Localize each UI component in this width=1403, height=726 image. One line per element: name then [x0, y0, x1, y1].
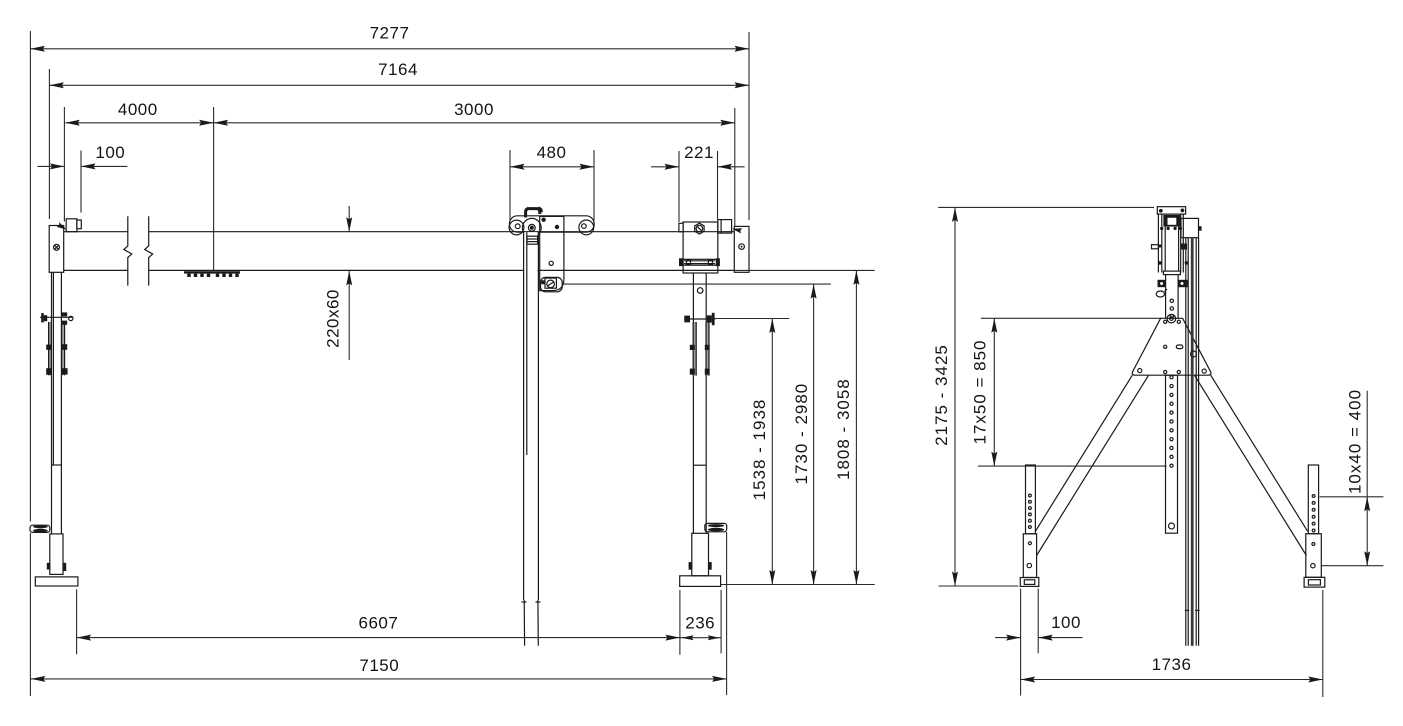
svg-text:480: 480 [537, 143, 567, 162]
dim 221 ext lines [678, 151, 680, 222]
right column bracket [683, 222, 718, 273]
right foot plate [680, 576, 721, 587]
left ext-line end arrow [57, 222, 67, 229]
dim 6607 ext lines [76, 589, 78, 654]
right column clamp [693, 322, 696, 376]
svg-text:1730 - 2980: 1730 - 2980 [792, 383, 811, 485]
dim 7164 [49, 84, 749, 86]
left end plate [49, 226, 64, 273]
left post upper [1026, 465, 1036, 534]
trolley right roller [579, 220, 594, 235]
svg-text:4000: 4000 [118, 100, 158, 119]
beam bottom edge [64, 269, 128, 271]
crank hook [1156, 291, 1164, 297]
svg-text:1736: 1736 [1152, 655, 1192, 674]
winch drum flanges [1158, 280, 1166, 287]
right bracket hex bolt [695, 223, 704, 234]
svg-text:10x40 = 400: 10x40 = 400 [1346, 389, 1365, 494]
rail [1185, 238, 1187, 646]
dim 236 [680, 637, 721, 639]
svg-text:3000: 3000 [454, 100, 494, 119]
dim 1538-1938 ext line [713, 318, 789, 320]
dim 17x50 ext lines [981, 317, 1162, 319]
left foot block [1020, 578, 1039, 587]
left post lower [1023, 534, 1036, 578]
dim 2175-3425 ext lines [938, 206, 1154, 208]
winch pulley block [1163, 215, 1180, 227]
svg-text:7150: 7150 [359, 656, 399, 675]
winch top plate [1157, 207, 1185, 214]
dim 10x40 [1366, 391, 1368, 566]
trolley top plate [509, 216, 594, 232]
dim 6607 [77, 637, 680, 639]
dim 100 right ext lines [1020, 589, 1022, 696]
dim 10x40 ext lines [1320, 496, 1384, 498]
dim 480 ext lines [509, 150, 511, 221]
dim 3000 ext line [734, 108, 736, 226]
winch inner tube [1164, 227, 1166, 272]
left stop tab [66, 219, 77, 232]
right bracket clamp bar [682, 259, 718, 265]
winch side bolts [1158, 261, 1162, 265]
right column tube [692, 273, 694, 533]
dim 17x50 [993, 318, 995, 466]
trolley pulley [522, 218, 541, 237]
dim 1538-1938 [771, 319, 773, 585]
dim 2175-3425 [954, 207, 956, 586]
winch bolt row [1160, 227, 1163, 230]
svg-text:17x50 = 850: 17x50 = 850 [970, 339, 989, 444]
dim 220x60 [348, 206, 350, 232]
left crank knob [30, 525, 50, 532]
left foot plate [35, 577, 78, 586]
svg-text:221: 221 [684, 143, 714, 162]
rack under beam [184, 271, 240, 273]
dim 480 [510, 166, 594, 168]
dim 1730-2980 [813, 284, 815, 584]
left leg [1035, 375, 1132, 531]
right foot block [1304, 577, 1325, 587]
dim 1730-2980 ext line [562, 283, 831, 285]
dim 1736 ext line [1322, 590, 1324, 697]
dim 100 right [995, 637, 1021, 639]
beam right end cap [734, 226, 749, 272]
left column clamp [49, 322, 52, 375]
trolley left roller [509, 220, 524, 235]
svg-text:2175 - 3425: 2175 - 3425 [932, 344, 951, 446]
right leg [1211, 375, 1308, 531]
mast holed bar [1166, 375, 1178, 533]
winch frame sides [1157, 214, 1159, 272]
dim 4000 [65, 122, 213, 124]
svg-text:220x60: 220x60 [324, 289, 343, 348]
svg-text:7277: 7277 [370, 24, 410, 43]
dim 7164 ext line [48, 69, 50, 219]
right crank knob [705, 523, 727, 531]
dim 221 [651, 166, 679, 168]
lifting eye [1167, 314, 1176, 323]
dim 7150 [31, 678, 727, 680]
trolley handle [526, 209, 540, 218]
triangle bold hole over rail [1191, 351, 1197, 357]
mast lower tube [1165, 275, 1167, 319]
dim 100 left [38, 165, 65, 167]
dim 3000 [214, 122, 735, 124]
triangle holes [1164, 320, 1167, 323]
dim 7150 ext line [726, 532, 728, 695]
trolley bolts [541, 218, 545, 222]
svg-text:1808 - 3058: 1808 - 3058 [834, 378, 853, 480]
dim 100 left ext line [80, 151, 82, 213]
right post upper [1308, 465, 1318, 534]
trolley mast [524, 232, 537, 600]
ground reference line [721, 584, 875, 586]
rail joint marks [1185, 609, 1189, 611]
right ext-line end arrow [732, 228, 742, 233]
right outer tube [692, 533, 709, 576]
trolley arm [540, 216, 564, 290]
beam top edge [64, 231, 128, 233]
svg-text:6607: 6607 [358, 614, 398, 633]
triangle gusset plate [1132, 318, 1211, 375]
rail bracket box [1181, 218, 1199, 237]
right post lower [1306, 534, 1322, 578]
left outer tube [50, 534, 63, 575]
svg-text:236: 236 [685, 614, 715, 633]
dim 7277 [30, 48, 749, 50]
svg-text:7164: 7164 [378, 60, 418, 79]
dim 1808-3058 [855, 270, 857, 584]
dim 1736 [1021, 679, 1323, 681]
beam break marks [124, 216, 132, 285]
dim 1808-3058 ext line [734, 269, 875, 271]
svg-text:100: 100 [95, 143, 125, 162]
left column tube [51, 273, 53, 534]
trolley lower bracket [541, 277, 563, 291]
winch left tab [1152, 245, 1159, 249]
dim 7277 ext lines [29, 31, 31, 522]
svg-text:1538 - 1938: 1538 - 1938 [750, 399, 769, 501]
trolley rope guide [527, 236, 538, 244]
dim 236 ext line [720, 590, 722, 653]
beam right end stop [718, 220, 732, 234]
svg-text:100: 100 [1051, 613, 1081, 632]
dim 4000 ext lines [63, 107, 65, 222]
trolley mast tips [523, 600, 525, 646]
